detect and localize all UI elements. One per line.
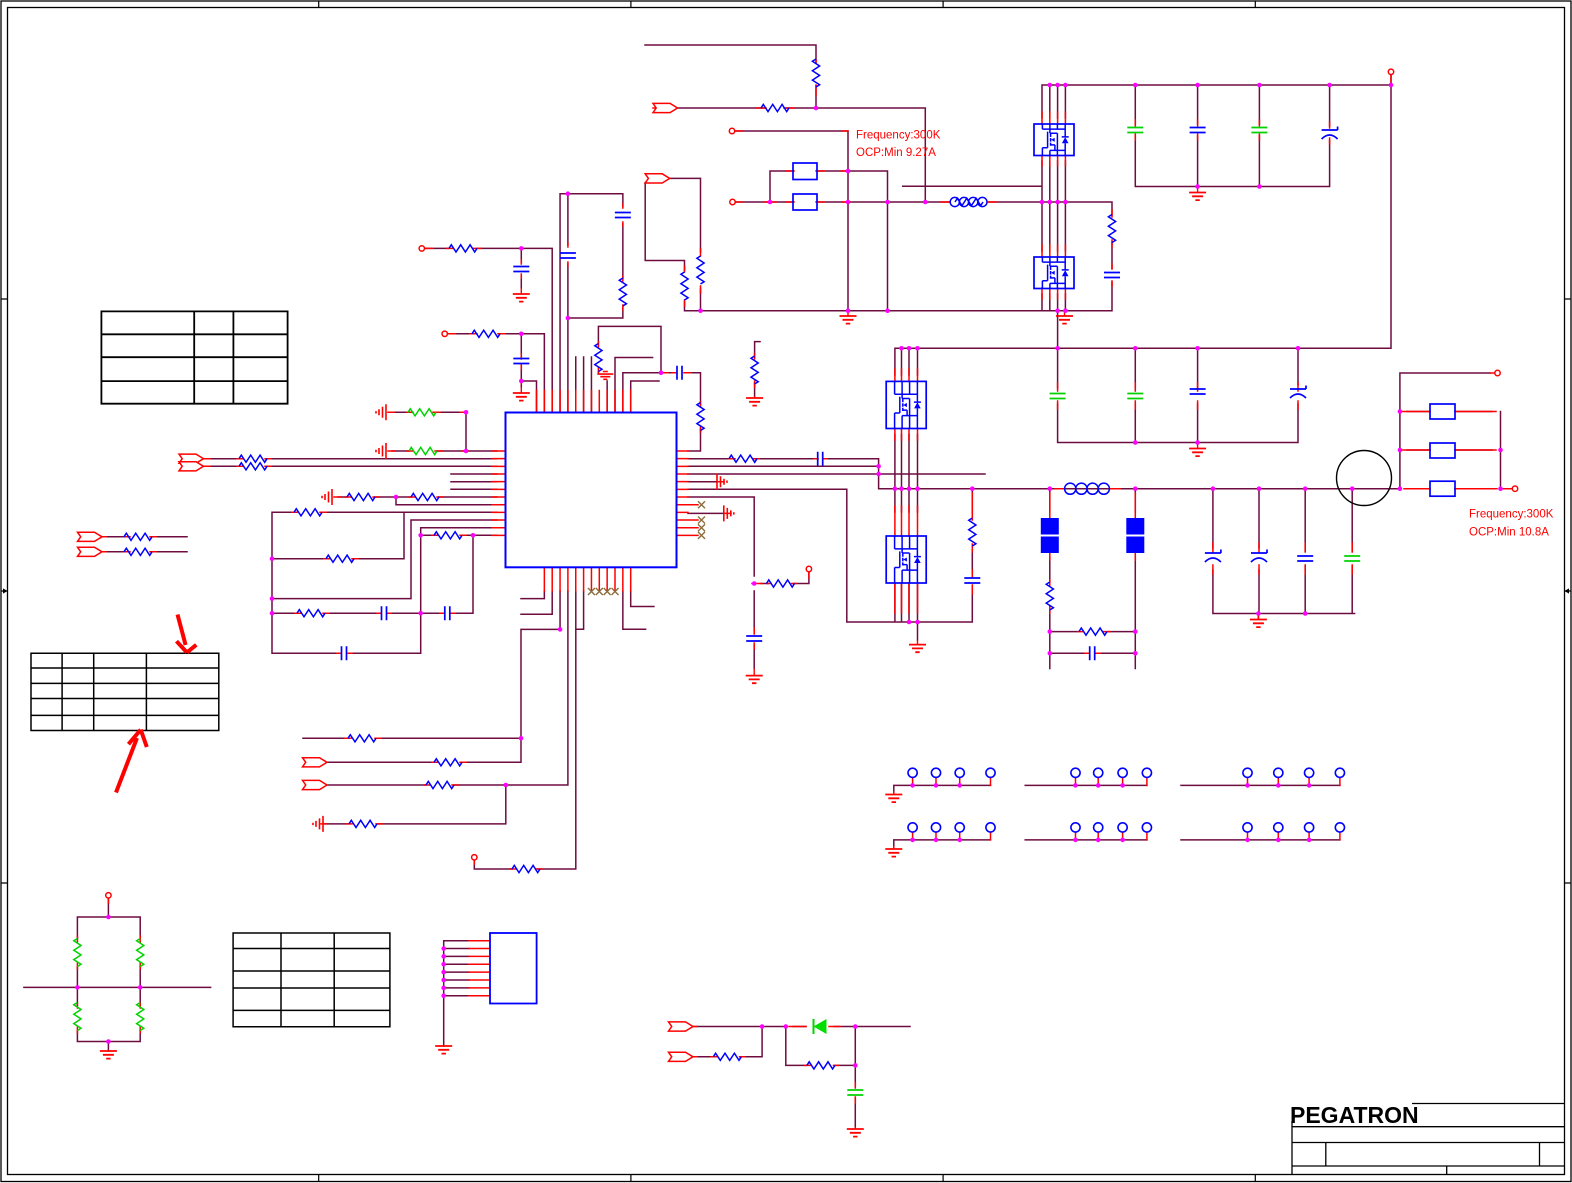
svg-text:OCP:Min 10.8A: OCP:Min 10.8A [1469,527,1549,539]
svg-text:OCP:Min 9.27A: OCP:Min 9.27A [856,147,936,159]
svg-text:PEGATRON: PEGATRON [1290,1102,1419,1128]
svg-text:Frequency:300K: Frequency:300K [856,130,941,142]
svg-text:Frequency:300K: Frequency:300K [1469,509,1554,521]
